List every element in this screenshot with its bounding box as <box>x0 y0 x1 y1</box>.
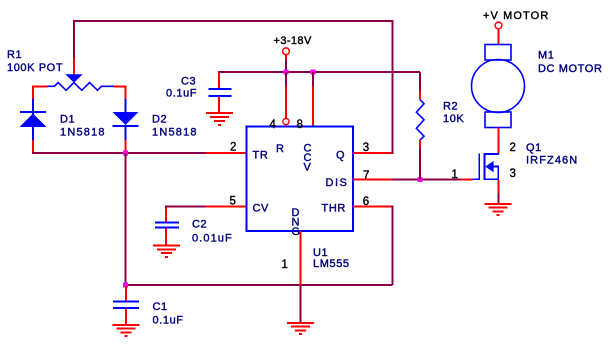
svg-text:2: 2 <box>230 142 236 154</box>
ground at Q1 source <box>485 204 512 215</box>
junction R2/DIS/gate <box>418 177 423 182</box>
label U1 <box>313 247 350 270</box>
svg-text:3: 3 <box>510 168 516 180</box>
label M1 <box>538 50 602 76</box>
svg-text:+V MOTOR: +V MOTOR <box>483 10 549 22</box>
ground at pin 1 <box>287 323 314 334</box>
motor M1 <box>472 45 525 128</box>
transistor Q1 IRFZ46N <box>472 153 499 180</box>
svg-text:0.1uF: 0.1uF <box>166 88 197 100</box>
ground at C2 <box>153 246 180 257</box>
svg-text:1: 1 <box>282 259 288 271</box>
svg-text:C2: C2 <box>192 219 207 231</box>
svg-text:1: 1 <box>452 169 458 181</box>
svg-text:R1: R1 <box>7 49 22 61</box>
svg-text:LM555: LM555 <box>313 258 350 270</box>
wire: supply to pin4 bubble <box>285 72 287 86</box>
svg-text:1N5818: 1N5818 <box>60 127 106 139</box>
svg-text:100K POT: 100K POT <box>7 62 63 74</box>
label C2 <box>192 219 233 245</box>
svg-text:M1: M1 <box>538 50 554 62</box>
svg-text:Q1: Q1 <box>526 142 542 154</box>
wire: pin 7 to gate <box>461 178 473 180</box>
svg-text:Q: Q <box>336 150 345 162</box>
wire: THR riser down to bottom node <box>392 205 394 285</box>
junction supply/pin4 <box>284 70 289 75</box>
svg-text:THR: THR <box>322 203 346 215</box>
label D1 <box>60 114 106 139</box>
svg-text:R: R <box>276 143 285 155</box>
svg-text:D1: D1 <box>60 114 75 126</box>
wire: pin 7 DIS maroon part <box>393 178 462 180</box>
svg-text:1N5818: 1N5818 <box>152 127 198 139</box>
svg-text:2: 2 <box>510 142 516 154</box>
ground at C3 <box>206 113 233 125</box>
capacitor C3 with supply rail corner <box>209 72 232 112</box>
diode D2 <box>113 99 139 153</box>
wire: pin 6 THR <box>353 205 392 207</box>
wire: supply to pin 8 <box>312 72 314 86</box>
label R1 <box>7 49 63 74</box>
svg-text:DC MOTOR: DC MOTOR <box>538 63 602 75</box>
wire: source to ground <box>497 180 499 193</box>
junction at D2 bottom <box>123 151 128 156</box>
junction supply/pin8 <box>311 70 316 75</box>
svg-text:TR: TR <box>253 150 269 162</box>
diode D1 <box>20 99 47 153</box>
wire: pin 7 DIS red part <box>353 178 393 180</box>
label C1 <box>153 301 184 327</box>
svg-text:C3: C3 <box>181 76 196 88</box>
wire: bottom rail diodes to TR pin2 (maroon part) <box>32 152 206 154</box>
wire: pin 3 output <box>353 152 392 154</box>
svg-text:10K: 10K <box>443 113 464 125</box>
label R2 <box>443 101 464 126</box>
wire: feedback top rail from pot wiper to output riser <box>74 21 393 154</box>
svg-text:CV: CV <box>253 203 270 215</box>
svg-text:DIS: DIS <box>326 177 349 189</box>
svg-text:D2: D2 <box>152 114 167 126</box>
svg-text:+3-18V: +3-18V <box>274 35 312 47</box>
terminal +V MOTOR <box>495 22 502 44</box>
wire: vertical from D2 junction down to C1 junction <box>125 153 127 285</box>
capacitor C2 with pin5 wire <box>155 206 247 245</box>
op-amp/IC U1 LM555 box <box>247 127 354 232</box>
potentiometer R1 <box>33 75 126 99</box>
junction at C1 <box>123 283 128 288</box>
wire: pot wiper riser red part <box>73 58 75 76</box>
pin numbers U1 <box>230 119 370 271</box>
svg-text:IRFZ46N: IRFZ46N <box>526 155 578 167</box>
pin numbers Q1 <box>452 142 516 181</box>
wire: horizontal C1 junction to THR riser <box>126 284 393 286</box>
svg-text:5: 5 <box>230 196 236 208</box>
svg-text:C1: C1 <box>153 301 168 313</box>
svg-text:0.1uF: 0.1uF <box>153 315 184 327</box>
ground at C1 <box>113 325 140 336</box>
label Q1 <box>526 142 578 167</box>
capacitor C1 <box>113 286 139 325</box>
svg-text:0.01uF: 0.01uF <box>192 233 233 245</box>
label D2 <box>152 114 198 139</box>
svg-text:R2: R2 <box>443 101 458 113</box>
IC internal pin labels <box>253 143 349 239</box>
terminal +3-18V <box>283 48 290 71</box>
wire: pin 1 GND down <box>300 231 302 285</box>
wire: motor to drain <box>498 128 500 155</box>
pin 4 active-low bubble <box>283 119 289 125</box>
wire: +V supply rail y=72 <box>218 71 420 73</box>
svg-text:4: 4 <box>270 119 277 131</box>
svg-text:V: V <box>304 162 312 174</box>
label C3 <box>166 76 197 100</box>
svg-text:8: 8 <box>297 119 303 131</box>
wire: red stub into pin 2 <box>206 152 247 154</box>
svg-text:G: G <box>292 226 301 238</box>
resistor R2 <box>416 72 424 179</box>
